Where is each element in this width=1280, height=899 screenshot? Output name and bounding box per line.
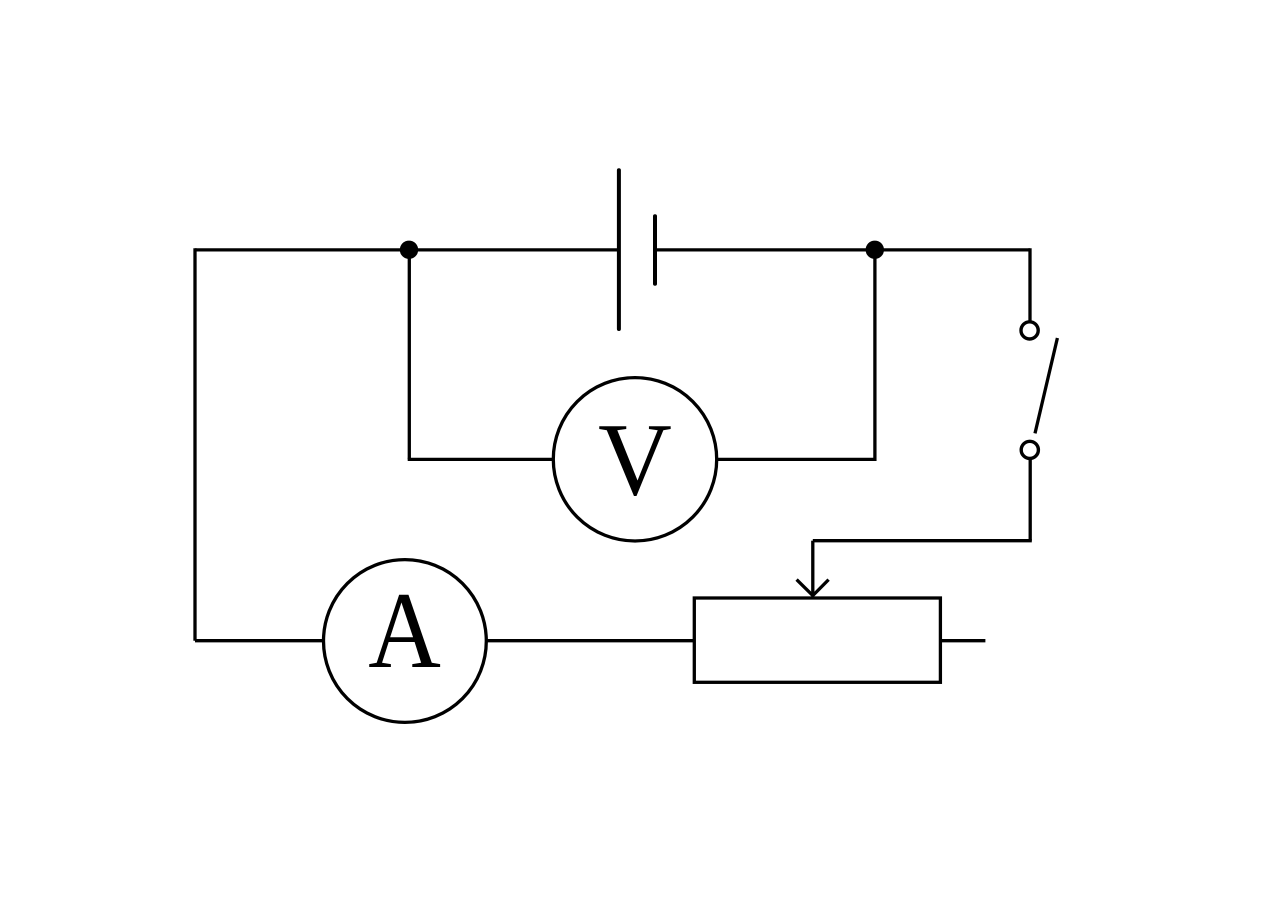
wire from junction B down to voltmeter branch	[873, 250, 876, 461]
svg-text:A: A	[368, 570, 441, 691]
switch S1 blade	[1035, 338, 1057, 433]
battery B1 long plate (+)	[617, 170, 621, 329]
rheostat wiper arrowhead	[797, 580, 829, 596]
svg-text:V: V	[598, 404, 672, 518]
wire switch-to-wiper horizontal	[813, 539, 1032, 542]
ammeter A1 circle	[324, 560, 487, 723]
battery B1 short plate (-)	[653, 216, 657, 284]
switch S1 top contact	[1021, 322, 1038, 339]
wire from junction A down to voltmeter branch	[408, 250, 411, 460]
wire voltmeter left	[408, 458, 554, 461]
node junction dot B	[866, 241, 884, 259]
wire right vertical to switch	[1028, 248, 1031, 322]
wire wiper vertical	[811, 541, 814, 595]
rheostat RP body	[694, 598, 940, 682]
wire left vertical	[193, 248, 196, 640]
wire top-right horizontal	[657, 248, 1030, 251]
wire voltmeter right	[717, 458, 875, 461]
wire ammeter right to rheostat	[486, 639, 694, 642]
wire switch bottom vertical	[1029, 458, 1032, 540]
wire rheostat right stub	[940, 639, 985, 642]
node junction dot A	[400, 241, 418, 259]
wire top-left horizontal	[195, 248, 619, 251]
wire ammeter left	[195, 639, 324, 642]
voltmeter V1 circle	[553, 378, 716, 541]
switch S1 bottom contact	[1021, 441, 1038, 458]
